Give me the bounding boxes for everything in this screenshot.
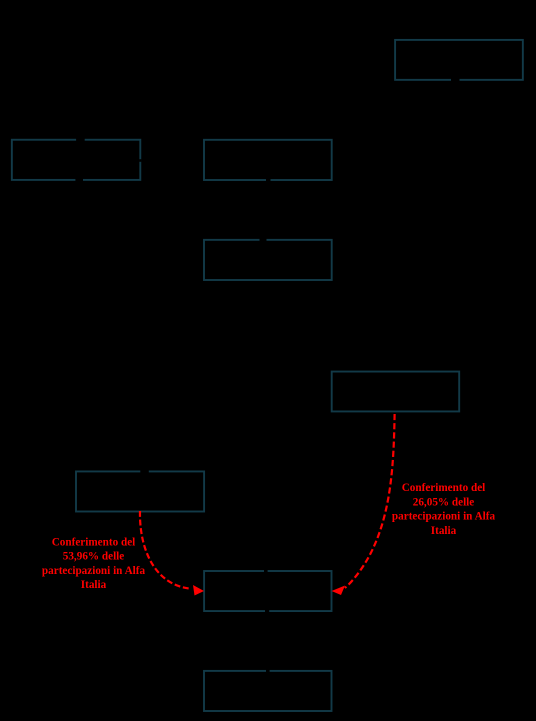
arrow: right conferimento (dashed curve): [345, 414, 395, 588]
arrowhead right (points left into box): [332, 586, 346, 596]
svg-text:53,96% delle: 53,96% delle: [63, 551, 125, 563]
box: mid-right (Alfa International): [332, 372, 460, 412]
box: row3 middle: [204, 240, 332, 280]
notch bottom-middle bottom: [265, 609, 269, 613]
svg-text:Conferimento del: Conferimento del: [52, 537, 136, 549]
svg-text:partecipazioni in Alfa: partecipazioni in Alfa: [42, 565, 146, 577]
notch bottom box top: [266, 669, 270, 673]
svg-text:Italia: Italia: [81, 579, 107, 591]
notch row2-left bottom: [75, 178, 83, 182]
box: top-right holding: [395, 40, 523, 80]
notch row2-left top: [76, 138, 85, 142]
box: bottom (Alfa Italia): [204, 671, 332, 711]
label: right red text: [392, 482, 496, 537]
notch bottom-middle top: [264, 569, 268, 573]
svg-text:Italia: Italia: [431, 525, 457, 537]
arrowhead left (points right into box): [193, 585, 204, 596]
box: row4 left: [76, 471, 204, 511]
notch row2-middle bottom: [266, 178, 271, 182]
svg-text:26,05% delle: 26,05% delle: [413, 496, 475, 508]
box: row2 middle: [204, 140, 332, 180]
arrow: left conferimento (dashed curve): [140, 511, 189, 589]
notch row2-left right edge: [139, 159, 141, 162]
box: row2 left: [12, 140, 140, 180]
notch on top-right box bottom edge: [451, 78, 460, 82]
notch row3 top: [260, 238, 267, 242]
label: left red text: [42, 537, 146, 592]
svg-text:partecipazioni in Alfa: partecipazioni in Alfa: [392, 511, 496, 523]
notch row4-left top: [140, 470, 149, 474]
svg-text:Conferimento del: Conferimento del: [402, 482, 486, 494]
box: bottom middle (conferitaria): [204, 571, 331, 611]
